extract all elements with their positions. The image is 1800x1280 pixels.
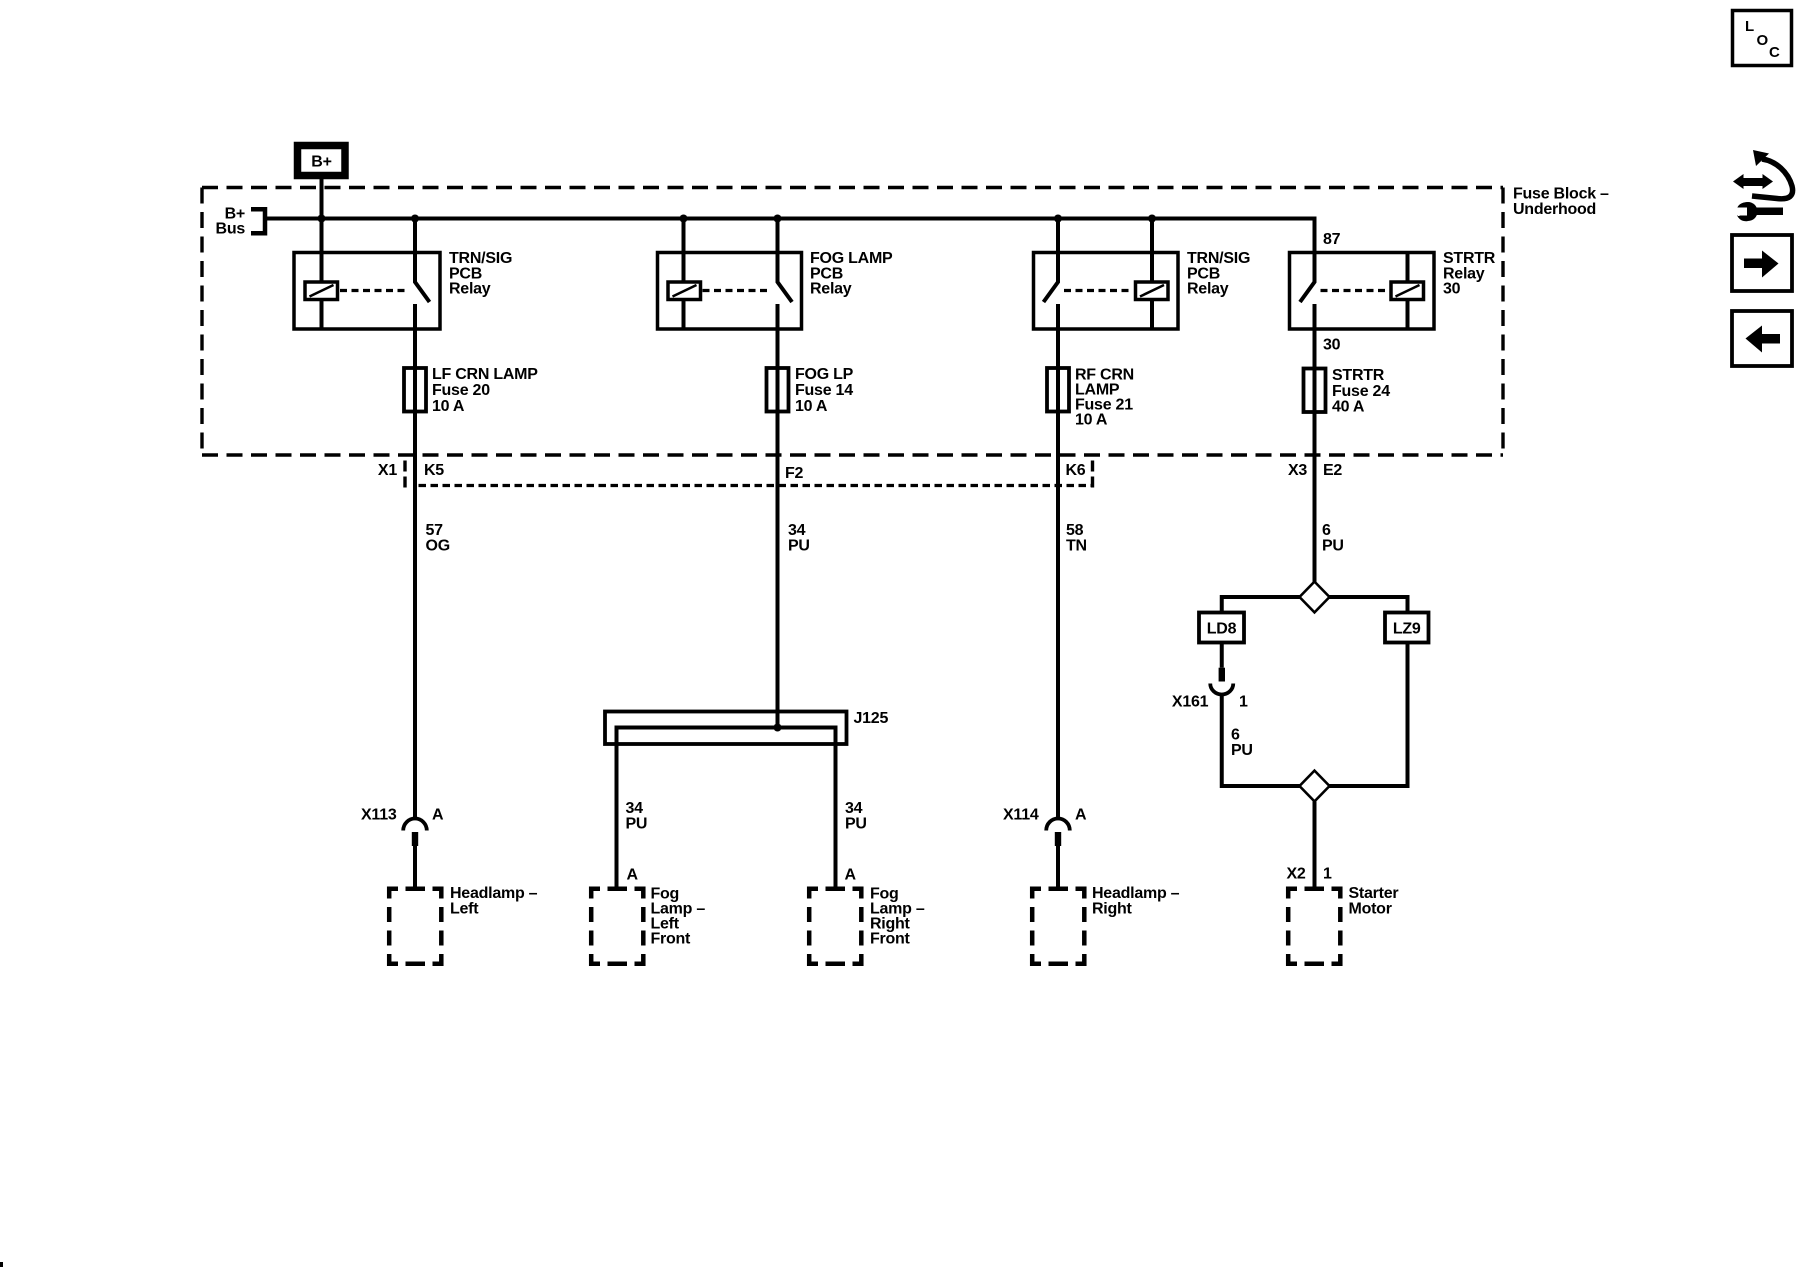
relay K5 TRN/SIG PCB Relay (294, 219, 512, 330)
wire label 58 TN (1066, 522, 1087, 554)
svg-text:A: A (1075, 807, 1087, 824)
wire label 34 PU (left fog leg) (626, 800, 648, 832)
svg-text:K5: K5 (424, 462, 444, 479)
svg-text:TN: TN (1066, 537, 1087, 554)
nav icon reroute arrows and wrench (1733, 150, 1793, 221)
svg-text:10 A: 10 A (795, 398, 828, 415)
splice diamond bottom (1300, 771, 1330, 802)
svg-text:X1: X1 (378, 462, 397, 479)
node B+ Bus (bracket and label) (216, 206, 265, 238)
junction on bus at fog relay coil (680, 215, 688, 223)
svg-text:A: A (845, 867, 857, 884)
nav icon back arrow (1732, 311, 1792, 366)
wire label 34 PU (right fog leg) (845, 800, 867, 832)
nav icon forward arrow (1732, 235, 1792, 291)
svg-text:X114: X114 (1003, 807, 1039, 824)
fuse 14 FOG LP (767, 366, 854, 415)
svg-text:Front: Front (651, 930, 692, 947)
svg-text:Fuse 20: Fuse 20 (432, 382, 490, 399)
svg-text:B+: B+ (311, 154, 331, 171)
junction on bus at relay K5 switch (411, 215, 419, 223)
svg-text:E2: E2 (1323, 462, 1342, 479)
junction on bus at relay K6 coil (1148, 215, 1156, 223)
svg-text:Relay: Relay (449, 281, 491, 298)
svg-text:X113: X113 (361, 807, 397, 824)
relay K6 TRN/SIG PCB Relay (mirrored) (1034, 219, 1251, 330)
fog lamp left front dashed box (589, 887, 646, 967)
svg-text:L: L (1745, 18, 1754, 35)
svg-text:Right: Right (1092, 900, 1133, 917)
wire bottom splice to starter motor (1313, 801, 1317, 886)
fog lamp right front dashed box (807, 887, 864, 967)
svg-text:PU: PU (1231, 742, 1253, 759)
junction on bus at B+ feed (318, 215, 326, 223)
svg-text:PU: PU (626, 815, 648, 832)
wire X161 to bottom splice (1222, 693, 1300, 786)
svg-text:FOG LP: FOG LP (795, 366, 854, 383)
svg-text:C: C (1769, 44, 1780, 61)
inline connector X161 (1172, 643, 1248, 711)
svg-text:87: 87 (1323, 231, 1341, 248)
headlamp left dashed box (387, 887, 444, 967)
svg-text:Underhood: Underhood (1513, 201, 1596, 218)
wire label 34 PU (788, 522, 810, 554)
svg-text:30: 30 (1443, 281, 1461, 298)
svg-text:X2: X2 (1287, 866, 1306, 883)
svg-text:K6: K6 (1066, 462, 1086, 479)
svg-text:Relay: Relay (810, 281, 852, 298)
svg-text:LD8: LD8 (1207, 621, 1237, 638)
splice J125 (605, 710, 888, 887)
wire B+ feed (320, 179, 324, 282)
fuse 24 STRTR (1304, 367, 1391, 415)
fuse 21 RF CRN LAMP (1047, 367, 1134, 429)
label Headlamp Right (1092, 885, 1180, 917)
wire label 6 PU (1322, 522, 1344, 554)
svg-text:OG: OG (426, 537, 450, 554)
starter motor dashed box (1286, 887, 1343, 967)
label Starter Motor (1349, 885, 1399, 917)
wire diamond to LD8 (1222, 597, 1300, 613)
wire STRTR relay to fuse 24 and down to splice (1313, 304, 1317, 582)
power symbol B+ (298, 146, 346, 176)
wire from relay K5 to fuse 20 and down (413, 304, 417, 819)
connector face dotted line (419, 484, 1093, 487)
svg-text:1: 1 (1239, 693, 1248, 710)
svg-text:Fuse 24: Fuse 24 (1332, 383, 1390, 400)
connector LZ9 (1385, 613, 1429, 643)
svg-text:PU: PU (788, 537, 810, 554)
svg-text:40 A: 40 A (1332, 399, 1365, 416)
svg-text:Motor: Motor (1349, 900, 1392, 917)
wire B+ bus (265, 219, 1315, 283)
svg-text:10 A: 10 A (1075, 412, 1108, 429)
splice diamond top (1300, 582, 1330, 613)
svg-text:STRTR: STRTR (1332, 367, 1385, 384)
svg-text:X161: X161 (1172, 693, 1209, 710)
wire relay K6 to fuse 21 and down (1056, 304, 1060, 819)
svg-text:F2: F2 (785, 465, 804, 482)
connector LD8 (1199, 613, 1244, 643)
inline connector X113 (361, 807, 444, 887)
svg-text:A: A (432, 807, 444, 824)
svg-text:Front: Front (870, 930, 911, 947)
svg-text:Bus: Bus (216, 220, 246, 237)
connector K6 separator (1091, 461, 1094, 490)
svg-text:Relay: Relay (1187, 281, 1229, 298)
inline connector X114 (1003, 807, 1087, 887)
svg-text:10 A: 10 A (432, 398, 465, 415)
svg-text:A: A (627, 867, 639, 884)
connector X1 separator (403, 461, 406, 490)
svg-text:Fuse 14: Fuse 14 (795, 382, 853, 399)
label Fuse Block - Underhood (1513, 186, 1609, 218)
svg-text:J125: J125 (854, 710, 889, 727)
wire fog relay to fuse 14 and to splice J125 (776, 304, 780, 728)
junction on bus at relay K6 switch (1054, 215, 1062, 223)
wire LZ9 to bottom splice (1330, 643, 1408, 787)
label Fog Lamp Left Front (651, 886, 706, 948)
wire diamond to LZ9 (1330, 597, 1408, 613)
wire label 57 OG (426, 522, 450, 554)
stray ink mark bottom-left (0, 1262, 3, 1267)
svg-text:X3: X3 (1288, 462, 1307, 479)
svg-text:LZ9: LZ9 (1393, 621, 1421, 638)
svg-text:Left: Left (450, 900, 479, 917)
svg-text:PU: PU (845, 815, 867, 832)
headlamp right dashed box (1030, 887, 1087, 967)
svg-text:O: O (1757, 32, 1769, 49)
svg-text:LF CRN LAMP: LF CRN LAMP (432, 366, 538, 383)
label Headlamp Left (450, 885, 538, 917)
nav icon LOC (1733, 11, 1792, 66)
fuse block underhood dashed boundary (202, 188, 1503, 456)
svg-text:PU: PU (1322, 537, 1344, 554)
label Fog Lamp Right Front (870, 886, 925, 948)
junction on bus at fog relay switch (774, 215, 782, 223)
svg-text:1: 1 (1323, 866, 1332, 883)
relay STRTR Relay (mirrored) (1290, 250, 1496, 329)
svg-text:30: 30 (1323, 337, 1341, 354)
fuse 20 LF CRN LAMP (404, 366, 538, 415)
wire label 6 PU (below X161) (1231, 727, 1253, 759)
relay FOG LAMP PCB Relay (658, 219, 894, 330)
